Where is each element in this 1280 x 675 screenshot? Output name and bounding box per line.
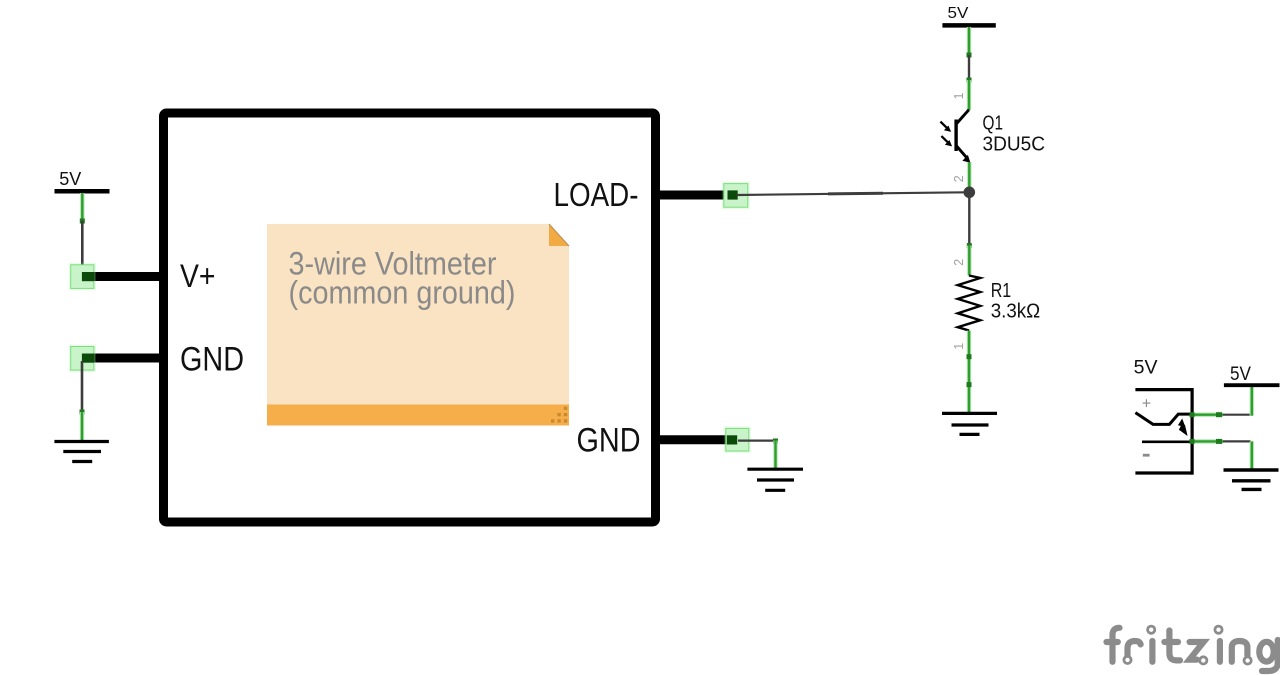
pin V+ xyxy=(82,272,162,281)
svg-text:2: 2 xyxy=(952,259,966,266)
svg-text:V+: V+ xyxy=(180,258,216,294)
pad V+ xyxy=(69,263,96,291)
photocell lower lead xyxy=(1142,440,1191,443)
svg-text:5V: 5V xyxy=(1230,364,1251,385)
wire 5V to Q1 collector xyxy=(967,27,971,55)
pad GND right xyxy=(724,426,751,453)
svg-text:3.3kΩ: 3.3kΩ xyxy=(991,300,1041,322)
pin GND right xyxy=(657,435,736,444)
z xyxy=(1189,642,1203,660)
svg-text:Q1: Q1 xyxy=(983,113,1004,135)
svg-text:1: 1 xyxy=(952,93,966,100)
photocell - label xyxy=(1143,454,1150,457)
svg-text:1: 1 xyxy=(952,343,966,350)
pin GND left xyxy=(82,354,162,363)
resistor R1 xyxy=(958,276,981,331)
wire PV- to ground (row 2) xyxy=(1192,439,1223,443)
i 2 xyxy=(1217,641,1223,662)
ground symbol left xyxy=(54,442,109,462)
bend marker xyxy=(80,219,85,224)
wire PV+ to 5V (row 1) xyxy=(1192,413,1223,417)
t xyxy=(1169,631,1180,661)
i 1 xyxy=(1149,641,1155,662)
5V supply symbol far right xyxy=(1224,364,1280,385)
svg-text:5V: 5V xyxy=(59,169,81,189)
r xyxy=(1128,641,1141,655)
ground symbol under R1 xyxy=(942,413,997,434)
pad GND left xyxy=(69,345,96,373)
fritzing logo xyxy=(1107,628,1278,671)
svg-text:(common ground): (common ground) xyxy=(289,275,516,311)
junction node xyxy=(964,187,976,199)
photocell PV1 body xyxy=(1135,388,1193,475)
svg-text:3DU5C: 3DU5C xyxy=(983,133,1046,155)
wire Q1 emitter to junction xyxy=(967,162,971,188)
wire LOAD- to junction xyxy=(737,192,966,195)
light arrow 2 xyxy=(941,136,948,143)
svg-text:+: + xyxy=(1142,395,1151,412)
phototransistor Q1 xyxy=(940,110,970,163)
pad LOAD- xyxy=(722,182,750,210)
wire segment to V+ pad xyxy=(81,221,84,272)
5V supply symbol top (Q1 branch) xyxy=(942,5,995,26)
svg-text:GND: GND xyxy=(180,341,244,379)
ground symbol right-of-box xyxy=(747,469,803,490)
note N1 (sticky annotation) xyxy=(267,224,569,426)
light arrow 1 xyxy=(940,122,947,129)
pin LOAD- xyxy=(657,191,736,200)
svg-text:LOAD-: LOAD- xyxy=(554,177,639,214)
wire GND-right to ground xyxy=(738,440,776,442)
svg-text:5V: 5V xyxy=(1134,357,1158,379)
f xyxy=(1113,628,1120,662)
wire 5V-left to V+ (green segment) xyxy=(80,193,84,221)
svg-text:R1: R1 xyxy=(991,280,1012,302)
photocell element squiggle xyxy=(1135,413,1190,425)
n xyxy=(1232,641,1248,662)
svg-text:GND: GND xyxy=(577,422,641,460)
svg-text:2: 2 xyxy=(952,175,966,182)
voltmeter module body U1 xyxy=(164,113,656,522)
g xyxy=(1259,642,1273,662)
wire junction to R1 xyxy=(968,198,970,246)
wire R1 to ground xyxy=(967,331,971,413)
ground symbol far right xyxy=(1224,470,1279,489)
5V supply symbol left xyxy=(55,169,110,191)
svg-text:5V: 5V xyxy=(948,5,970,22)
wire GND-left to ground xyxy=(81,361,84,412)
lightning bolt xyxy=(1178,419,1188,437)
